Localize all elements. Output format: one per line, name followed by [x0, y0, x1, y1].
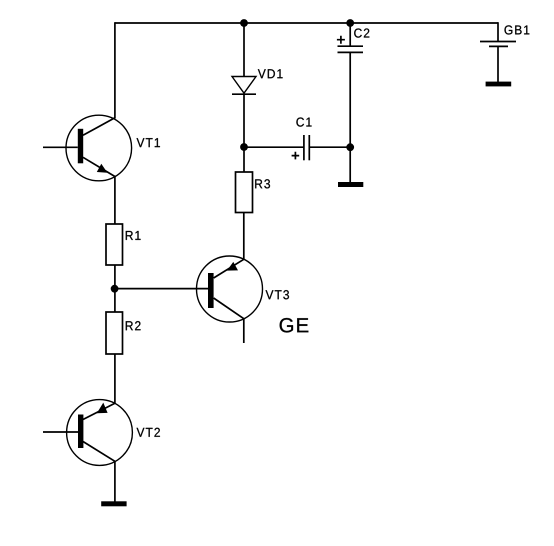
resistor R2 — [106, 312, 123, 354]
wire C1 right plate to node D — [309, 146, 350, 148]
wire VT1 collector riser — [114, 22, 116, 118]
transistor VT1 — [66, 115, 132, 181]
wire GB1 to ground — [497, 46, 499, 82]
wire C2 bottom plate to node D — [349, 52, 351, 147]
label R1 — [126, 231, 141, 240]
wire top bus to C2 top plate — [349, 23, 351, 46]
node C junction dot — [240, 143, 248, 151]
wire VT2 base lead — [43, 431, 78, 433]
wire R2 to VT2 — [114, 354, 116, 404]
wire top bus to VD1 anode — [243, 23, 245, 77]
wire R3 to VT3 collector — [243, 213, 245, 260]
wire node A to R2 — [114, 289, 116, 312]
diode VD1 — [232, 77, 256, 95]
node E junction dot on top bus — [346, 19, 354, 27]
node D junction dot — [346, 143, 354, 151]
wire VT2 collector to ground — [114, 461, 116, 502]
resistor R3 — [236, 172, 253, 213]
wire VT1 base lead — [43, 146, 78, 148]
wire node A to VT3 base — [115, 288, 208, 290]
wire node D to ground — [349, 147, 351, 183]
label C2 — [354, 28, 369, 37]
ground under node D — [338, 182, 363, 187]
label VT3 — [266, 290, 289, 299]
node A junction dot — [111, 285, 119, 293]
resistor R1 — [106, 224, 123, 265]
label VD1 — [258, 69, 283, 78]
ground under VT2 — [101, 501, 126, 506]
wire node C to C1 left plate — [244, 146, 304, 148]
label R3 — [255, 179, 270, 188]
ground under GB1 — [486, 82, 512, 87]
wire VT3 emitter stub — [243, 319, 245, 344]
label C1 — [296, 117, 311, 126]
label VT2 — [137, 428, 160, 437]
node B junction dot on top bus — [240, 19, 248, 27]
capacitor C1 — [292, 135, 310, 160]
capacitor C2 — [337, 36, 363, 53]
wire top bus to GB1 — [497, 22, 499, 41]
label VT1 — [137, 138, 160, 147]
wire node C to R3 — [243, 147, 245, 172]
label GB1 — [505, 25, 530, 34]
wire VD1 cathode to node C — [243, 94, 245, 147]
transistor VT3 — [197, 256, 263, 322]
wire top bus — [115, 22, 498, 24]
wire R1 to node A — [114, 265, 116, 289]
wire VT1 emitter to R1 — [114, 176, 116, 225]
transistor VT2 — [67, 400, 133, 466]
label R2 — [126, 321, 141, 330]
label GE — [280, 318, 309, 333]
battery GB1 — [480, 42, 516, 47]
